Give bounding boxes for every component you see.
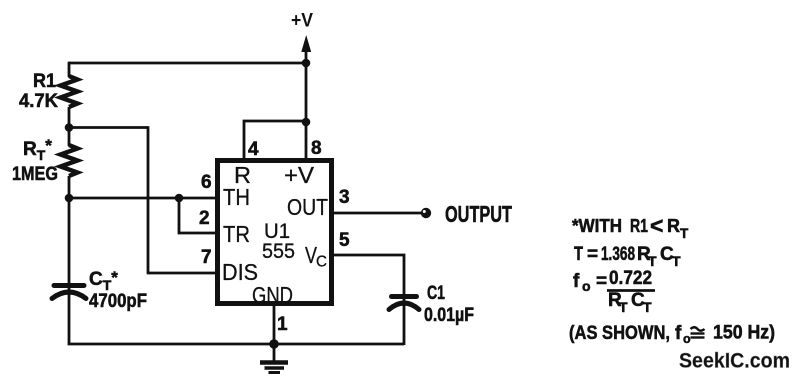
wire DIS branch horizontal pin7 [147,272,218,275]
svg-text:*WITH: *WITH [572,216,622,236]
wire junction to DIS horizontal [69,126,148,129]
svg-text:2: 2 [199,208,210,229]
node dot TR junction [175,194,184,203]
capacitor CT top plate [54,283,84,288]
svg-text:555: 555 [262,239,295,263]
svg-text:(AS SHOWN,: (AS SHOWN, [569,323,670,344]
wire pin4 loop [244,121,306,160]
wire pin1 GND [273,304,276,361]
svg-text:C1: C1 [427,283,445,304]
svg-text:6: 6 [201,172,212,193]
svg-text:3: 3 [339,187,350,208]
IC U1 555 box [218,161,332,304]
svg-text:OUT: OUT [287,194,328,220]
ground symbol [260,363,288,373]
svg-text:8: 8 [311,138,322,159]
wire C1 vertical lead [403,296,406,345]
wire top rail [69,62,306,65]
wire TR branch [179,198,218,233]
wire left vertical top lead [68,62,71,77]
resistor R1 [61,76,78,107]
wire TH horizontal pin6 [69,197,218,200]
svg-text:5: 5 [339,230,350,251]
wire pin5 VC [332,255,404,296]
resistor RT [61,145,78,176]
node dot ground rail [269,339,279,349]
svg-text:SeekIC.com: SeekIC.com [679,349,790,373]
svg-text:0.01µF: 0.01µF [424,305,474,326]
svg-text:150 Hz): 150 Hz) [713,323,775,344]
wire R1 to RT [68,107,71,146]
wire bottom rail [68,343,404,346]
node dot top rail [302,59,311,68]
svg-text:+V: +V [284,162,314,188]
approx equal symbol [691,327,705,337]
node dot RT-TH junction [65,194,74,203]
svg-text:OUTPUT: OUTPUT [445,201,512,227]
output terminal [421,208,431,218]
svg-text:TH: TH [223,184,250,210]
svg-text:R1: R1 [33,71,56,92]
wire DIS branch vertical [147,126,150,273]
svg-text:+V: +V [291,11,313,32]
svg-text:1MEG: 1MEG [12,164,58,185]
wire pin8 vertical to +V [305,46,308,160]
wire pin3 OUT [332,212,421,215]
svg-text:1: 1 [277,314,288,335]
capacitor CT curved plate [52,292,86,299]
wire RT bottom lead [68,176,71,345]
node dot pin4 loop [302,118,311,127]
capacitor C1 top plate [392,294,417,299]
svg-text:0.722: 0.722 [609,268,652,289]
note fraction bar [607,289,655,292]
+V arrow [301,35,311,52]
svg-text:TR: TR [223,221,250,247]
node dot R1-RT junction [65,123,74,132]
svg-text:4.7K: 4.7K [19,91,58,112]
svg-text:GND: GND [252,282,293,308]
svg-text:4: 4 [248,139,259,160]
output terminal highlight [423,210,426,213]
capacitor C1 curved plate [389,303,419,310]
svg-text:7: 7 [201,247,212,268]
svg-text:4700pF: 4700pF [89,291,147,312]
